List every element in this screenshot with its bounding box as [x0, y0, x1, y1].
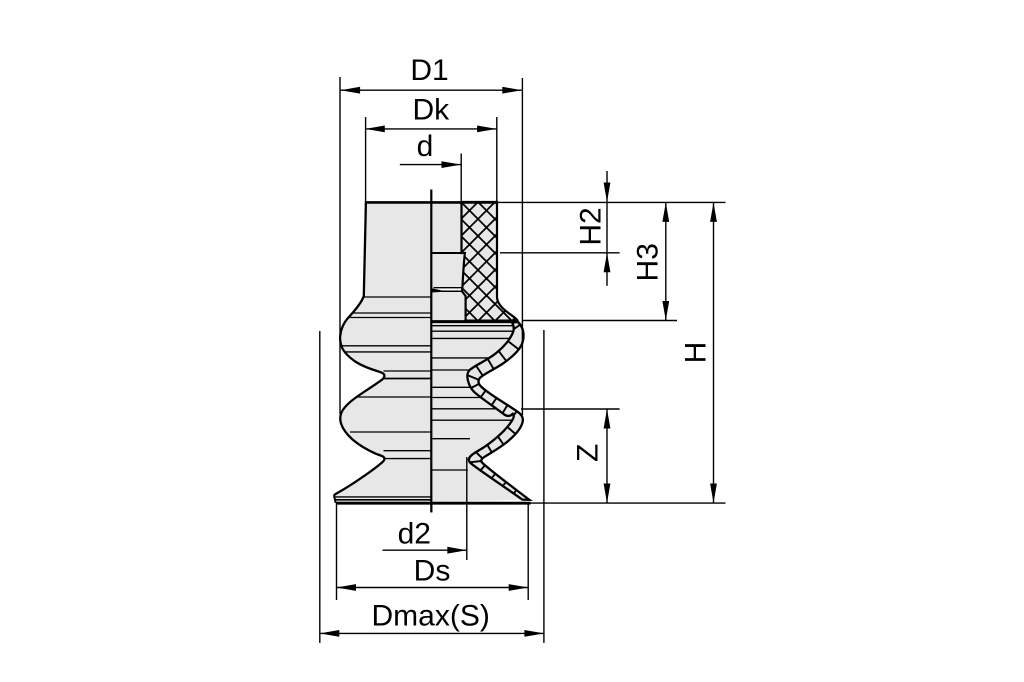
- centerline bottom stub: [431, 503, 433, 512]
- left contour line y=313: [353, 312, 431, 314]
- left contour line y=378.5: [384, 378, 432, 380]
- dimension H: [713, 202, 715, 503]
- right interior contour line y=397.5: [431, 397, 480, 399]
- svg-text:H3: H3: [631, 243, 664, 281]
- left contour line y=397: [357, 396, 431, 398]
- left contour line y=317.5: [349, 317, 431, 319]
- svg-text:Z: Z: [572, 444, 605, 462]
- extension line d: [460, 154, 462, 203]
- dimension H2: [606, 171, 608, 286]
- dimension Dk: [365, 128, 496, 130]
- left contour line y=345.8: [342, 345, 431, 347]
- svg-text:D1: D1: [410, 54, 448, 87]
- left contour line y=297: [364, 296, 431, 298]
- bore lower section: [431, 291, 465, 320]
- extension line D1 left: [339, 77, 341, 414]
- sealing lip thin line 1: [334, 496, 431, 498]
- svg-text:Ds: Ds: [414, 555, 451, 588]
- svg-text:d: d: [417, 130, 434, 163]
- left contour line y=351.9: [346, 351, 432, 353]
- extension line Dmax left: [319, 331, 321, 643]
- svg-text:H2: H2: [574, 207, 607, 245]
- right interior contour line y=338.4: [431, 337, 509, 339]
- thread relief wedge: [432, 288, 442, 292]
- dimension Ds: [337, 587, 529, 589]
- svg-text:d2: d2: [398, 518, 431, 551]
- dimension Z: [606, 409, 608, 503]
- right interior contour line y=370: [431, 369, 469, 371]
- bellows wall cross-section band: [467, 322, 529, 500]
- extension line Dk left: [365, 117, 367, 202]
- thread relief slit top line: [434, 287, 463, 289]
- right interior contour line y=420.2: [431, 419, 511, 421]
- centerline: [430, 190, 432, 513]
- insert bottom thick line: [431, 320, 518, 323]
- top face edge: [365, 201, 498, 204]
- dimension d2: [383, 549, 467, 551]
- right interior contour line y=325.7: [431, 325, 512, 327]
- bore middle section: [431, 253, 465, 288]
- svg-text:H: H: [680, 342, 713, 364]
- left contour line y=450.7: [384, 450, 432, 452]
- extension line bottom right (H/Z datum): [531, 502, 726, 504]
- extension line Dmax right: [543, 330, 545, 643]
- bellows wall hatch ticks: [467, 325, 520, 494]
- left contour line y=371: [384, 370, 432, 372]
- step line below bore: [431, 252, 465, 254]
- right interior contour line y=438.7: [431, 438, 470, 440]
- dimension H3: [665, 202, 667, 320]
- threaded insert cross-section: [430, 120, 540, 403]
- svg-text:Dmax(S): Dmax(S): [372, 599, 490, 632]
- svg-text:Dk: Dk: [412, 94, 450, 127]
- left contour line y=432: [350, 431, 431, 433]
- bore upper section right of centerline: [431, 202, 461, 253]
- extension line Z top: [521, 408, 620, 410]
- extension line Ds left: [336, 505, 338, 601]
- cup exterior left half (grey silhouette): [334, 203, 432, 503]
- left contour line y=458.6: [384, 458, 432, 460]
- extension line Dk right: [496, 117, 498, 202]
- right interior contour line y=331.2: [431, 330, 512, 332]
- extension line Ds right: [527, 505, 529, 601]
- extension line d2: [466, 457, 468, 560]
- lip left edge: [334, 495, 336, 503]
- dimension D1: [341, 89, 522, 91]
- extension line H2 bottom: [500, 252, 620, 254]
- right interior contour line y=470: [431, 469, 468, 471]
- thread relief line: [442, 290, 462, 292]
- interior cavity section below insert: [431, 320, 522, 502]
- extension line D1 right: [521, 78, 523, 415]
- right interior contour line y=357.9: [431, 357, 488, 359]
- extension line top right (H datum): [498, 201, 726, 203]
- right interior contour line y=387.3: [431, 386, 470, 388]
- dimension d: [400, 164, 461, 166]
- right interior contour line y=408.8: [431, 408, 496, 410]
- dimension Dmax(S): [320, 632, 544, 634]
- sealing lip thin line 2: [335, 499, 431, 501]
- lip bottom thick edge: [336, 502, 531, 505]
- extension line H3 bottom: [523, 320, 677, 322]
